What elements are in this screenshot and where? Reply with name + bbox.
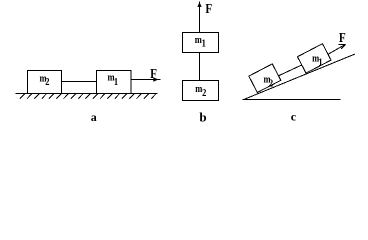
svg-text:1: 1 (318, 58, 323, 69)
box m1 (b) (183, 33, 219, 53)
svg-text:c: c (291, 110, 297, 124)
label m2 (c) (264, 75, 274, 90)
svg-text:2: 2 (202, 88, 207, 99)
svg-text:F: F (339, 30, 346, 45)
svg-text:1: 1 (114, 77, 119, 88)
string a (62, 81, 97, 83)
base line c (243, 99, 341, 101)
svg-text:a: a (91, 110, 97, 124)
svg-text:F: F (205, 1, 212, 16)
svg-text:2: 2 (269, 79, 274, 90)
force arrow c (328, 44, 346, 54)
label F (b) (205, 1, 212, 16)
label m1 (c) (312, 54, 323, 69)
string c (279, 65, 302, 76)
ground hatching (20, 94, 156, 99)
svg-text:F: F (150, 66, 157, 81)
label m2 (b) (195, 85, 206, 100)
ground (16, 93, 158, 95)
box m2 (c) rotated (249, 64, 281, 93)
label m2 (a) (40, 74, 50, 89)
box m1 (c) rotated (298, 44, 332, 73)
string b (199, 53, 201, 81)
box m2 (b) (183, 81, 219, 101)
label F (c) (339, 30, 346, 45)
force arrow a (131, 79, 161, 81)
label m1 (a) (108, 73, 119, 88)
label F (a) (150, 66, 157, 81)
svg-text:2: 2 (45, 78, 50, 89)
incline c (245, 54, 356, 99)
label m1 (b) (195, 35, 206, 50)
svg-text:b: b (199, 110, 206, 125)
force arrow b (199, 1, 201, 32)
svg-text:1: 1 (202, 39, 207, 50)
box m1 (a) (97, 71, 132, 94)
box m2 (a) (28, 71, 62, 94)
